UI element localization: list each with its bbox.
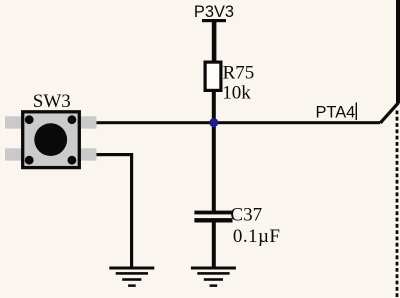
svg-text:PTA4: PTA4 bbox=[316, 104, 356, 122]
svg-text:10k: 10k bbox=[222, 83, 251, 104]
svg-text:R75: R75 bbox=[223, 63, 255, 84]
svg-text:SW3: SW3 bbox=[33, 91, 71, 112]
svg-text:P3V3: P3V3 bbox=[194, 3, 234, 21]
svg-text:C37: C37 bbox=[230, 204, 262, 225]
svg-text:0.1µF: 0.1µF bbox=[233, 226, 281, 247]
